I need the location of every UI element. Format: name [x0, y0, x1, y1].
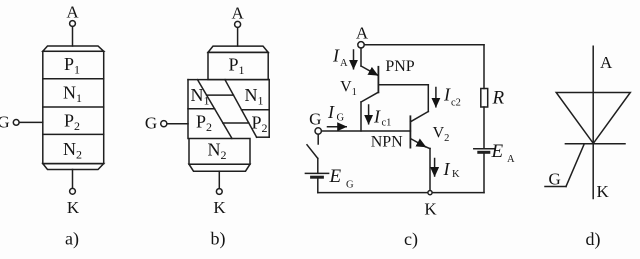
svg-text:NPN: NPN	[371, 134, 403, 151]
svg-text:I: I	[373, 107, 381, 127]
svg-text:I: I	[443, 85, 451, 105]
svg-text:c2: c2	[451, 98, 461, 109]
svg-text:A: A	[231, 4, 244, 23]
svg-text:R: R	[492, 88, 505, 109]
svg-text:P2: P2	[196, 112, 212, 135]
svg-text:I: I	[443, 159, 451, 179]
svg-text:P2: P2	[252, 113, 268, 136]
svg-text:a): a)	[65, 229, 79, 250]
svg-text:K: K	[597, 182, 610, 201]
svg-text:G: G	[309, 110, 321, 129]
svg-text:A: A	[340, 58, 348, 69]
svg-text:A: A	[66, 3, 79, 22]
svg-text:G: G	[337, 113, 345, 124]
svg-text:K: K	[452, 169, 460, 180]
svg-text:PNP: PNP	[385, 58, 414, 75]
svg-text:c1: c1	[382, 118, 392, 129]
svg-text:V2: V2	[433, 125, 450, 144]
svg-text:K: K	[424, 200, 437, 219]
svg-text:K: K	[213, 198, 226, 217]
svg-text:N2: N2	[208, 140, 227, 163]
svg-text:N1: N1	[191, 85, 210, 108]
svg-text:N1: N1	[245, 85, 264, 108]
svg-text:P2: P2	[64, 111, 80, 134]
svg-text:G: G	[0, 113, 10, 132]
svg-text:A: A	[507, 154, 515, 165]
svg-text:P1: P1	[64, 54, 80, 77]
svg-text:G: G	[145, 114, 157, 133]
svg-text:N1: N1	[63, 83, 82, 106]
svg-text:b): b)	[211, 229, 226, 250]
svg-text:A: A	[356, 24, 369, 43]
svg-text:I: I	[332, 46, 340, 66]
svg-text:G: G	[346, 180, 354, 191]
svg-text:A: A	[600, 53, 613, 72]
svg-text:c): c)	[404, 229, 418, 250]
svg-text:K: K	[67, 198, 80, 217]
svg-text:N2: N2	[63, 139, 82, 162]
svg-text:I: I	[327, 102, 335, 122]
svg-text:E: E	[491, 141, 504, 162]
svg-text:d): d)	[586, 229, 601, 250]
svg-text:E: E	[329, 166, 342, 187]
svg-text:G: G	[549, 170, 561, 189]
svg-text:P1: P1	[229, 55, 245, 78]
svg-text:V1: V1	[340, 79, 357, 98]
